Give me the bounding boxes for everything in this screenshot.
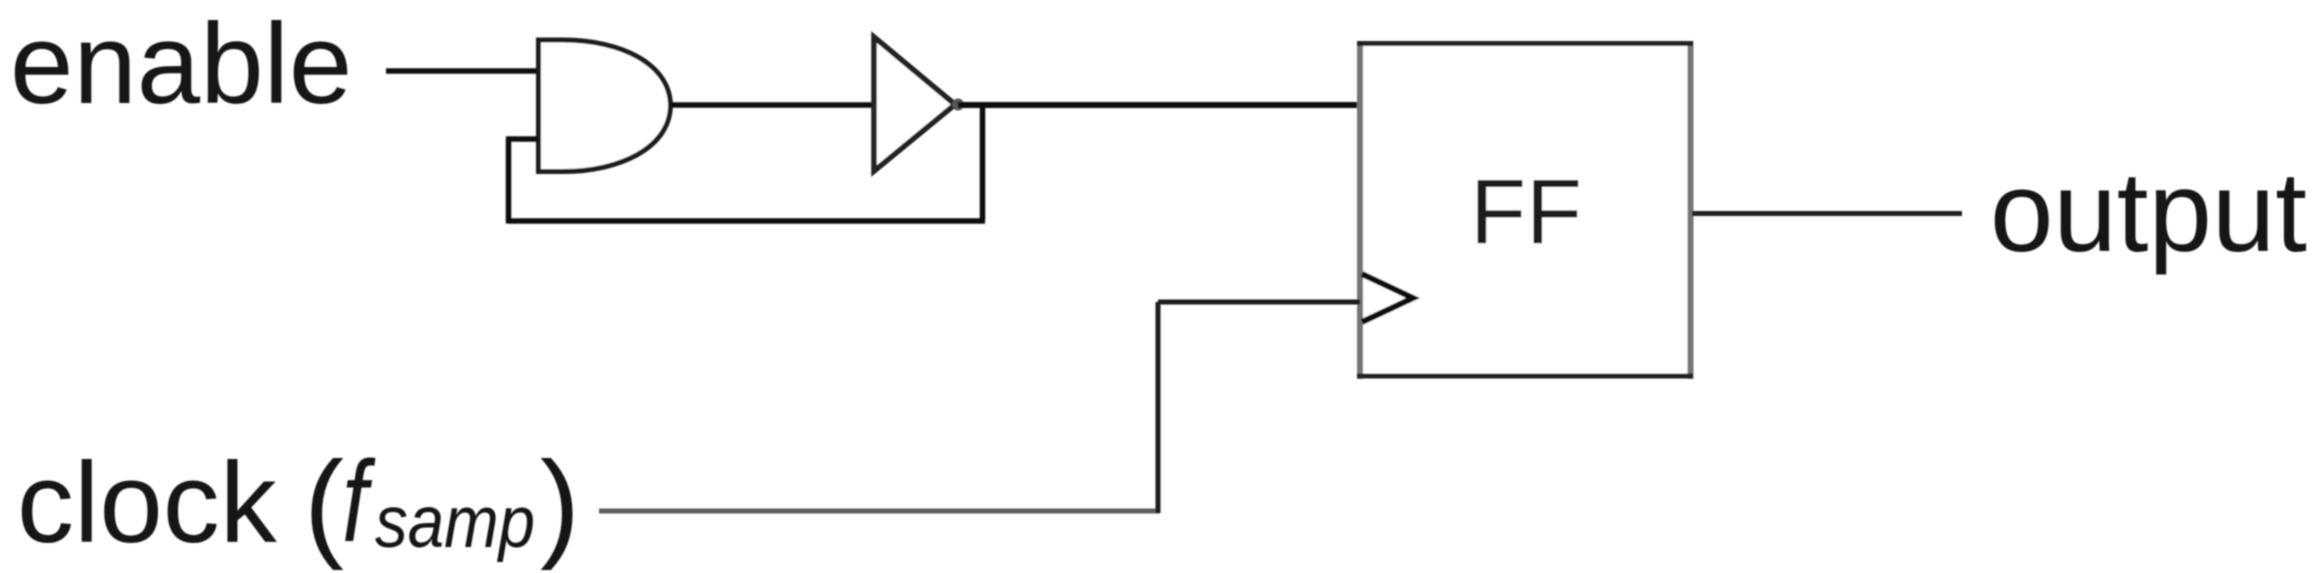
flip-flop FF box top edge [1357, 41, 1693, 46]
flip-flop FF box [1360, 44, 1691, 377]
inverter bubble / junction dot at buffer tip [952, 99, 964, 111]
wire clock riser [1156, 302, 1161, 513]
wire enable input [386, 68, 537, 74]
wire clock run into FF [1158, 300, 1360, 305]
flip-flop FF box right edge [1688, 41, 1694, 379]
svg-text:samp: samp [375, 482, 535, 563]
svg-text:FF: FF [1470, 161, 1582, 263]
wire FF output [1692, 211, 1962, 216]
svg-text:enable: enable [10, 1, 352, 128]
AND gate U1 [539, 40, 671, 172]
wire AND output to buffer input [671, 102, 872, 108]
wire feedback down from output node [980, 105, 986, 221]
flip-flop FF box bottom edge [1357, 374, 1693, 379]
wire feedback up to AND second input [506, 139, 512, 224]
wire feedback bottom run [509, 218, 986, 224]
svg-text:f: f [342, 438, 376, 566]
svg-text:): ) [540, 437, 580, 571]
svg-text:clock: clock [17, 440, 278, 567]
wire buffer output to FF data input [958, 102, 1362, 108]
buffer U2 [874, 37, 955, 171]
clock input chevron on FF [1362, 274, 1413, 322]
wire feedback stub into AND gate [506, 136, 538, 142]
flip-flop FF box left edge [1357, 41, 1363, 379]
svg-text:output: output [1990, 149, 2307, 276]
svg-text:(: ( [304, 437, 344, 571]
wire clock run horizontal from label [599, 509, 1160, 514]
